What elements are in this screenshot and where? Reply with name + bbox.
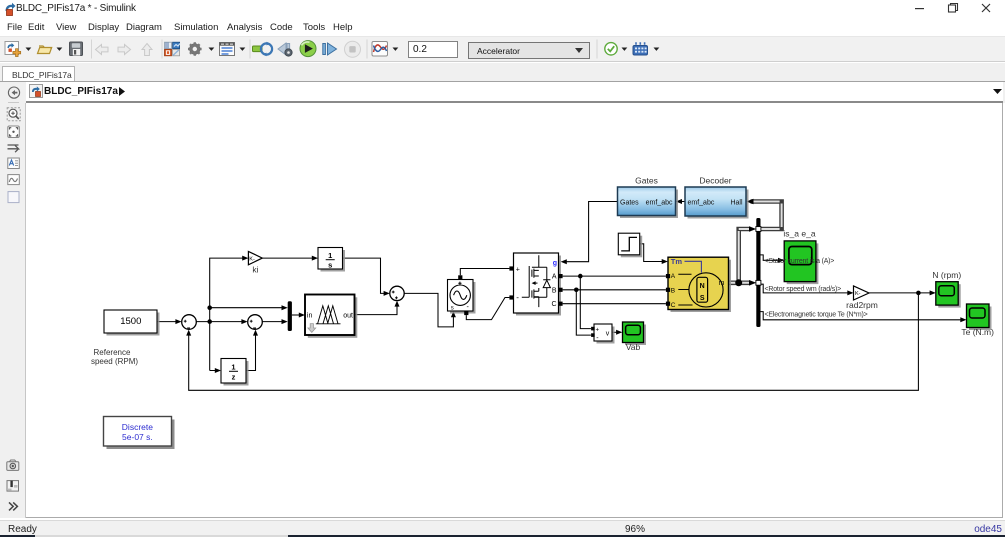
wire step to motor Tm — [640, 244, 663, 262]
svg-text:s: s — [451, 305, 454, 311]
wire bridge A to motor A — [563, 275, 666, 277]
forward — [118, 45, 131, 55]
svg-text:in: in — [307, 313, 313, 320]
scope Vab — [625, 325, 646, 346]
svg-text:m: m — [719, 280, 725, 287]
left sidebar — [0, 103, 26, 518]
run — [300, 41, 316, 57]
svg-text:out: out — [343, 313, 353, 320]
svg-text:s: s — [328, 260, 332, 269]
svg-text:S: S — [700, 295, 705, 302]
svg-text:C: C — [551, 301, 556, 308]
svg-text:C: C — [671, 302, 676, 309]
separator — [597, 40, 598, 59]
library browser — [165, 42, 172, 48]
svg-text:+: + — [516, 266, 520, 273]
screenshot button — [7, 462, 19, 471]
separator — [250, 40, 251, 59]
svg-text:1: 1 — [231, 363, 235, 372]
wire Sum3 to voltage source s input — [404, 293, 453, 327]
expand button — [9, 502, 17, 510]
svg-text:<Stator current is a (A)>: <Stator current is a (A)> — [765, 258, 835, 265]
svg-text:emf_abc: emf_abc — [646, 199, 673, 206]
sample time button — [8, 145, 19, 152]
svg-text:Vab: Vab — [626, 342, 641, 352]
breadcrumb row — [0, 81, 1005, 103]
svg-text:N: N — [700, 283, 705, 290]
title bar — [0, 0, 1005, 18]
controlled voltage source — [450, 282, 476, 314]
stop (disabled) — [345, 41, 361, 57]
subsystem Decoder — [688, 190, 749, 219]
svg-text:emf_abc: emf_abc — [688, 199, 715, 206]
status bar — [0, 520, 1005, 535]
model advisor board — [633, 46, 648, 56]
scope button — [372, 42, 388, 57]
gain rad2rpm — [854, 286, 870, 300]
wire selector to gain rad2rpm — [760, 284, 848, 293]
wire rad2rpm to N scope — [869, 292, 931, 294]
open button — [38, 46, 52, 54]
svg-text:+: + — [596, 328, 600, 334]
viewmarks button — [8, 175, 19, 185]
separator — [91, 40, 92, 59]
annotation button — [8, 158, 19, 169]
junction node on line A — [578, 274, 583, 279]
svg-text:Tm: Tm — [671, 257, 683, 266]
svg-text:Reference: Reference — [94, 348, 131, 357]
wire unit delay to Sum2 — [246, 335, 255, 371]
svg-text:B: B — [671, 287, 675, 294]
svg-text:Te (N.m): Te (N.m) — [961, 327, 994, 337]
voltage measurement — [597, 327, 615, 344]
wire selector to is_a scope — [760, 255, 779, 260]
svg-text:Hall: Hall — [730, 199, 743, 206]
svg-text:<Rotor speed wm (rad/s)>: <Rotor speed wm (rad/s)> — [765, 286, 842, 293]
constant block 1500 — [107, 313, 160, 336]
powergui block Discrete 5e-07 s. — [107, 420, 175, 450]
gear — [188, 42, 202, 56]
fuzzy logic controller — [308, 297, 358, 338]
palette placeholder button — [8, 192, 19, 203]
wire tap B to voltmeter minus — [576, 290, 591, 335]
wire integrator to Sum3 — [343, 258, 385, 293]
svg-text:Gates: Gates — [635, 176, 658, 186]
svg-text:K-: K- — [249, 256, 255, 262]
svg-text:g: g — [553, 260, 557, 267]
zoom button — [7, 108, 20, 121]
hide browser button — [8, 87, 19, 98]
scope Te (N.m) — [969, 307, 992, 331]
svg-text:1500: 1500 — [120, 316, 141, 327]
new model button — [5, 42, 19, 55]
svg-text:ki: ki — [252, 265, 258, 275]
step forward — [323, 44, 326, 55]
subsystem Gates — [620, 190, 678, 219]
svg-text:5e-07 s.: 5e-07 s. — [122, 432, 153, 442]
wire selector to Te scope — [760, 312, 961, 320]
svg-text:K-: K- — [855, 291, 861, 297]
menu bar — [0, 18, 1005, 36]
wire feedback speed loop — [189, 293, 919, 390]
sum block Sum2 — [248, 315, 263, 330]
BLDC motor block — [671, 260, 732, 312]
wire bridge B to motor B — [563, 289, 666, 291]
gain ki — [248, 251, 262, 264]
unit delay 1/z — [224, 361, 249, 386]
wire bridge C to motor C — [563, 303, 666, 305]
simulation data inspector — [253, 46, 263, 52]
bus wire selector to Decoder Hall — [751, 202, 782, 230]
universal bridge MOSFET — [516, 256, 561, 316]
model configuration — [220, 43, 235, 56]
mux — [288, 301, 292, 331]
back — [96, 45, 109, 55]
scope N (rpm) — [938, 284, 960, 307]
toolbar — [0, 36, 1005, 62]
svg-text:B: B — [552, 287, 557, 294]
svg-text:A: A — [671, 273, 676, 280]
svg-text:<Electromagnetic torque Te (N*: <Electromagnetic torque Te (N*m)> — [765, 311, 868, 318]
wire Sum2 to mux — [263, 321, 283, 323]
junction node at Sum1 output — [207, 319, 212, 324]
scope is_a e_a — [787, 243, 819, 284]
model browser button — [7, 481, 19, 492]
save button — [70, 42, 83, 56]
wire 1500 to Sum1 — [157, 321, 176, 323]
svg-text:-: - — [516, 293, 519, 302]
separator — [162, 40, 163, 59]
wire voltmeter to Vab scope — [612, 331, 617, 333]
sum block Sum1 — [182, 315, 197, 330]
wire branch to gain ki / mux / unit delay — [210, 258, 283, 370]
wire fuzzy controller to Sum3 — [355, 306, 397, 315]
up — [142, 44, 152, 56]
junction node on branch to mux — [207, 305, 212, 310]
sum block Sum3 — [390, 286, 404, 300]
bus selector — [756, 218, 760, 327]
wire Decoder to Gates — [681, 201, 685, 203]
svg-text:Gates: Gates — [620, 199, 639, 206]
wire mux to fuzzy controller — [292, 314, 300, 316]
wire source minus to bridge minus — [466, 298, 509, 320]
canvas — [26, 103, 1003, 518]
separator — [367, 40, 368, 59]
svg-text:Decoder: Decoder — [699, 176, 731, 186]
wire Gates output to bridge g — [566, 202, 618, 262]
svg-text:v: v — [606, 330, 610, 337]
update diagram check — [605, 43, 617, 55]
svg-text:speed (RPM): speed (RPM) — [91, 357, 138, 366]
svg-text:1: 1 — [328, 251, 332, 260]
wire tap A to voltmeter plus — [580, 276, 591, 329]
svg-text:z: z — [232, 372, 236, 381]
bus wire motor m to bus selector — [729, 229, 751, 283]
tab bar — [0, 63, 1005, 81]
svg-text:is_a e_a: is_a e_a — [783, 229, 815, 239]
junction node bus — [735, 279, 742, 286]
junction node to feedback — [916, 291, 921, 296]
svg-text:Discrete: Discrete — [122, 422, 153, 432]
wire gain ki to integrator — [262, 257, 312, 259]
step back (disabled) — [278, 43, 286, 55]
wire Sum1 to Sum2 — [197, 321, 243, 323]
wire source plus to bridge plus — [460, 269, 509, 276]
fit to view button — [8, 126, 19, 138]
integrator 1/s — [321, 250, 346, 272]
svg-text:rad2rpm: rad2rpm — [846, 300, 878, 310]
step block — [621, 236, 642, 258]
svg-text:N (rpm): N (rpm) — [932, 270, 961, 280]
svg-text:A: A — [552, 274, 557, 281]
junction node on line B — [574, 288, 579, 293]
